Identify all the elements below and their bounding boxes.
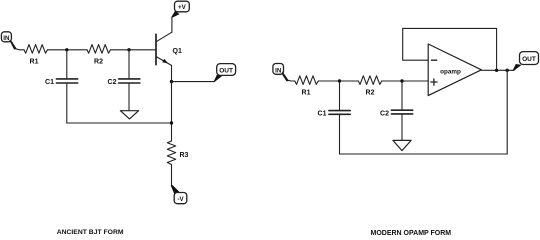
wire collector to +V [172,12,175,32]
transistor Q1 [156,32,172,65]
pin marker IN (right) [281,73,288,81]
svg-text:IN: IN [3,35,10,42]
pin marker IN (left) [9,40,16,50]
wire R2 to Q1 base [111,49,156,51]
port OUT (right) [520,52,539,65]
resistor R2 (right) [358,76,382,85]
wire R1 to R2 [48,49,88,51]
resistor R2 (left) [87,45,111,54]
resistor R1 (left) [24,45,48,54]
node A (right junction) [338,79,341,82]
pin marker -V [171,185,180,194]
node B (left junction) [127,48,130,51]
port OUT (left) [217,64,236,76]
node B (right junction) [400,79,403,82]
node A (left junction) [65,48,68,51]
wire IN to R1 (right) [282,72,295,81]
svg-text:R1: R1 [30,58,39,65]
wire - input feedback (left side) [403,28,429,60]
svg-text:OUT: OUT [219,68,233,75]
svg-text:ANCIENT BJT FORM: ANCIENT BJT FORM [57,229,124,235]
svg-text:R2: R2 [366,90,375,97]
node OUT junction (left) [170,80,173,83]
node feedback junction (left) [170,121,173,124]
op-amp U1 [428,44,481,96]
svg-text:opamp: opamp [440,69,461,76]
wire R3 to -V [172,165,175,193]
capacitor C2 (right) [391,81,412,140]
power +V [175,1,190,12]
svg-text:+V: +V [178,4,187,11]
wire feedback right drop [496,28,498,70]
wire IN to R1 [11,40,25,49]
svg-text:R1: R1 [302,90,311,97]
port IN (left) [1,32,11,42]
wire R1 to R2 (right) [318,80,358,82]
resistor R1 (right) [295,76,319,85]
svg-text:Q1: Q1 [173,48,182,55]
svg-text:R2: R2 [94,58,103,65]
port IN (right) [273,64,284,75]
capacitor C1 (left) [56,50,77,123]
resistor R3 [167,141,175,165]
wire feedback bottom (left) [67,122,172,124]
ground (left) [120,111,138,119]
node output junction [506,69,509,72]
svg-text:R3: R3 [180,152,189,159]
wire feedback bottom (right) [340,153,508,155]
wire R2 to op-amp + input [382,80,428,82]
capacitor C2 (left) [119,50,140,111]
pin marker +V [172,11,180,18]
wire op-amp output [481,69,514,71]
wire to OUT (left) [172,81,215,83]
pin marker OUT (right) [512,64,521,71]
svg-text:C2: C2 [380,111,389,118]
ground (right) [393,140,411,150]
svg-text:-V: -V [178,196,185,203]
node feedback-output junction [495,69,498,72]
capacitor C1 (right) [329,81,350,154]
wire output down [506,70,508,154]
pin marker OUT (left) [214,75,223,82]
svg-text:OUT: OUT [522,56,536,63]
power -V [174,193,187,204]
wire emitter rail [171,65,173,141]
svg-text:C1: C1 [318,111,327,118]
svg-text:C1: C1 [45,79,54,86]
svg-text:C2: C2 [108,79,117,86]
wire feedback top rail [403,27,497,29]
svg-text:MODERN OPAMP FORM: MODERN OPAMP FORM [371,230,452,235]
svg-text:IN: IN [275,67,282,74]
